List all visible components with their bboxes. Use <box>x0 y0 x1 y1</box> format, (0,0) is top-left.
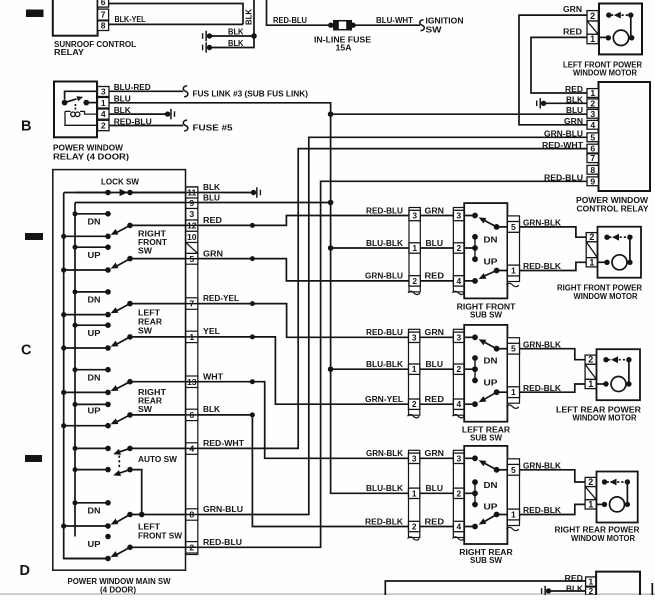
switch arm (down) <box>116 515 131 523</box>
sub switch 1 selector <box>472 234 478 240</box>
left front motor pin 1 <box>587 34 598 43</box>
upper ground (BLK) <box>207 33 212 38</box>
svg-text:7: 7 <box>101 10 106 20</box>
svg-text:8: 8 <box>189 510 194 520</box>
power window relay pin 2 <box>98 120 110 130</box>
motor 2 pin 1 <box>585 379 596 388</box>
svg-text:1: 1 <box>511 387 516 397</box>
svg-text:BLU: BLU <box>114 93 131 103</box>
svg-text:BLU-RED: BLU-RED <box>114 82 151 92</box>
svg-text:RED-BLU: RED-BLU <box>203 537 242 547</box>
sub switch 2 pin 5 <box>507 343 519 354</box>
inline connector 1 pin 1 <box>409 243 420 253</box>
svg-text:RED-BLU: RED-BLU <box>366 327 403 337</box>
svg-text:1: 1 <box>588 379 593 389</box>
sunroof relay pin 8 <box>98 21 109 31</box>
svg-text:11: 11 <box>187 188 196 198</box>
motor 2 keying wedge <box>585 364 596 379</box>
svg-text:BLU: BLU <box>426 359 444 369</box>
svg-text:3: 3 <box>456 453 461 463</box>
auto switch row B <box>75 469 108 471</box>
wire to upper ground <box>210 35 255 37</box>
sub switch 3 selector <box>472 479 478 485</box>
svg-text:GRN-BLK: GRN-BLK <box>523 460 562 470</box>
svg-text:GRN: GRN <box>203 248 223 258</box>
wire RED: left front motor pin 1 to control relay pin 1 <box>531 37 587 93</box>
svg-text:SUB SW: SUB SW <box>470 433 503 443</box>
wire YEL main sw pin 1 to sub connector 2 (GRN-YEL) <box>130 337 409 404</box>
switch arm (up) <box>116 547 131 555</box>
svg-text:GRN-BLK: GRN-BLK <box>523 339 562 349</box>
sub switch 1 right pin strip <box>507 216 519 282</box>
svg-text:RED-YEL: RED-YEL <box>203 293 239 303</box>
main sw keying wedge <box>186 243 198 254</box>
svg-text:BLK: BLK <box>228 27 244 37</box>
main sw pin 9 cell <box>186 198 198 209</box>
svg-text:5: 5 <box>511 465 516 475</box>
motor 3 (circle) <box>596 503 604 505</box>
svg-text:BLU-WHT: BLU-WHT <box>376 15 414 25</box>
svg-text:2: 2 <box>590 11 595 21</box>
svg-text:UP: UP <box>88 539 101 549</box>
switch DN contact <box>75 213 108 215</box>
ignition switch connector squiggle <box>420 20 425 31</box>
fus link #3 connector squiggle <box>183 86 188 97</box>
inline connector 3 pin 2 <box>409 521 420 531</box>
svg-text:1: 1 <box>590 88 595 98</box>
svg-text:WINDOW MOTOR: WINDOW MOTOR <box>573 68 638 78</box>
section marker bar (left, mid) <box>25 233 43 240</box>
switch DN contact <box>75 291 108 293</box>
svg-text:UP: UP <box>484 256 498 266</box>
svg-text:RED-BLU: RED-BLU <box>544 173 583 183</box>
main sw pin 6 cell <box>186 409 198 420</box>
svg-text:RED: RED <box>425 271 445 281</box>
motor 1 (circle) <box>598 261 608 263</box>
auto switch output wire <box>130 470 142 515</box>
wire main sw pin 2 (RED-BLU) <box>130 546 198 548</box>
svg-text:2: 2 <box>101 121 106 131</box>
inline connector 1 strip <box>409 208 420 292</box>
switch arm (up) <box>116 415 131 423</box>
svg-text:BLU: BLU <box>426 483 444 493</box>
control relay pin 9 <box>587 177 599 186</box>
sub switch 3 internal wires <box>464 458 475 526</box>
svg-text:2: 2 <box>589 586 594 595</box>
svg-text:1: 1 <box>511 510 516 520</box>
sub switch 3 pin 3 <box>453 453 464 463</box>
inline connector 1 pin 2 <box>409 276 420 286</box>
inline connector 1 squiggle <box>408 291 420 294</box>
svg-text:CONTROL RELAY: CONTROL RELAY <box>577 203 649 213</box>
wire RED-YEL main sw pin 7 to sub connector 2 <box>130 304 409 338</box>
svg-text:2: 2 <box>589 232 594 242</box>
svg-text:GRN-BLU: GRN-BLU <box>203 504 243 514</box>
svg-text:4: 4 <box>456 399 461 409</box>
svg-text:4: 4 <box>189 444 194 454</box>
switch pivot (down) <box>64 391 108 393</box>
svg-text:BLK: BLK <box>228 38 244 48</box>
control relay pin 7 <box>587 154 599 163</box>
svg-text:10: 10 <box>187 232 197 242</box>
sub switch 1 upper arm <box>472 213 478 219</box>
sub switch 2 pin strip (left) <box>453 329 464 415</box>
wire RED-BLK sub switch 1 to motor <box>520 262 587 270</box>
power window main switch box <box>53 170 186 571</box>
svg-text:12: 12 <box>187 221 197 231</box>
svg-text:15A: 15A <box>336 42 352 52</box>
svg-text:9: 9 <box>189 198 194 208</box>
section marker bar A <box>26 10 44 18</box>
svg-text:RED: RED <box>565 573 584 583</box>
svg-text:UP: UP <box>484 378 498 388</box>
svg-text:1: 1 <box>412 488 417 498</box>
inline connector 2 pin 3 <box>409 332 420 342</box>
wire RED main sw pin 12 to sub connector (RED-BLU) <box>130 216 409 226</box>
left front motor limit switch <box>606 12 611 17</box>
svg-text:WINDOW MOTOR: WINDOW MOTOR <box>573 413 638 423</box>
svg-text:GRN: GRN <box>425 448 445 458</box>
svg-text:BLU-BLK: BLU-BLK <box>366 359 404 369</box>
switch pivot (up) <box>64 347 108 349</box>
sub switch 1 pin 4 <box>453 276 464 286</box>
svg-text:UP: UP <box>88 328 101 338</box>
sub switch 2 upper arm <box>472 334 478 340</box>
svg-text:2: 2 <box>412 399 417 409</box>
svg-text:FRONT SW: FRONT SW <box>138 530 183 540</box>
svg-text:3: 3 <box>456 332 461 342</box>
svg-text:GRN: GRN <box>425 327 445 337</box>
wire stub at right edge <box>651 583 653 595</box>
junction BLU bus / sub connector 1 <box>328 245 334 251</box>
main sw connector strip <box>186 187 198 555</box>
svg-text:1: 1 <box>412 243 417 253</box>
sub switch 2 right pin strip <box>507 338 519 404</box>
svg-text:RED-WHT: RED-WHT <box>542 140 584 150</box>
svg-text:SW: SW <box>138 246 153 256</box>
ground at main sw pin 11 <box>251 190 256 195</box>
wire GRN-BLK sub switch 3 to motor <box>520 470 586 482</box>
inline connector 2 strip <box>409 329 420 415</box>
switch UP contact <box>75 324 108 326</box>
svg-text:2: 2 <box>590 98 595 108</box>
svg-text:RED: RED <box>425 394 445 404</box>
motor 2 limit switch <box>603 357 608 362</box>
svg-text:SW: SW <box>426 24 443 34</box>
svg-text:4: 4 <box>456 522 461 532</box>
power window relay internals: switch <box>65 91 98 100</box>
junction BLU bus / control relay pin 3 <box>328 111 334 117</box>
svg-text:RED: RED <box>425 516 445 526</box>
svg-text:RED: RED <box>565 84 583 94</box>
svg-text:UP: UP <box>88 250 101 260</box>
svg-text:GRN: GRN <box>425 205 445 215</box>
sub switch 1 internal wires <box>464 216 475 281</box>
wire BLK from relay pin 4 to ground <box>109 113 168 115</box>
junction auto output / pin 8 wire <box>139 512 145 518</box>
svg-text:GRN: GRN <box>563 4 582 14</box>
inline connector 3 squiggle <box>408 537 420 540</box>
svg-text:8: 8 <box>590 165 595 175</box>
svg-text:UP: UP <box>88 406 101 416</box>
svg-text:SUB SW: SUB SW <box>470 555 503 565</box>
svg-text:RED-BLU: RED-BLU <box>114 116 152 126</box>
motor 3 armature wire <box>626 482 628 504</box>
motor 3 pin 2 <box>585 477 596 486</box>
wire BLU-WHT from fuse to ignition switch <box>353 24 420 26</box>
svg-text:DN: DN <box>88 372 101 382</box>
harness dot on YEL wire <box>250 334 255 339</box>
svg-text:7: 7 <box>590 153 595 163</box>
motor 1 pin 1 <box>586 258 597 267</box>
harness dot on RED-YEL wire <box>250 301 255 306</box>
svg-text:UP: UP <box>484 502 498 512</box>
svg-text:5: 5 <box>511 344 516 354</box>
svg-text:WHT: WHT <box>203 371 224 381</box>
lower ground (BLK) <box>207 45 212 50</box>
vertical wire BLK from top edge <box>210 0 255 48</box>
control relay pin 2 <box>587 99 599 108</box>
wire GRN main sw pin 5 to sub connector (GRN-BLU) <box>130 259 409 281</box>
svg-text:GRN-YEL: GRN-YEL <box>365 394 403 404</box>
main sw pin 1 cell <box>186 331 198 342</box>
switch pivot (down) <box>64 525 108 527</box>
svg-text:GRN-BLU: GRN-BLU <box>365 271 403 281</box>
wires connector to sub switch <box>420 337 454 404</box>
wire BLU junction to control relay pin 3 <box>331 113 587 115</box>
bottom connector pin 2 <box>586 587 597 595</box>
svg-text:9: 9 <box>590 176 595 186</box>
switch arm (down) <box>116 382 131 390</box>
auto switch arm B <box>119 470 131 474</box>
sub switch 1 pin strip (left) <box>453 208 464 292</box>
svg-text:5: 5 <box>511 222 516 232</box>
svg-text:RED-BLK: RED-BLK <box>523 383 562 393</box>
motor 3 box <box>597 472 638 523</box>
sub switch 3 box <box>464 446 507 544</box>
svg-text:FUS LINK #3 (SUB FUS LINK): FUS LINK #3 (SUB FUS LINK) <box>193 89 309 99</box>
wire BLK-YEL from sunroof relay pin 8 <box>109 23 243 25</box>
svg-text:WINDOW MOTOR: WINDOW MOTOR <box>571 533 636 543</box>
svg-text:2: 2 <box>456 243 461 253</box>
inline connector 1 pin 3 <box>409 210 420 220</box>
svg-text:2: 2 <box>412 522 417 532</box>
svg-text:2: 2 <box>456 488 461 498</box>
svg-text:GRN-BLK: GRN-BLK <box>523 218 562 228</box>
power window relay pin 1 <box>98 98 110 109</box>
sub switch 1 pin 3 <box>453 210 464 220</box>
svg-text:1: 1 <box>589 257 594 267</box>
left front motor (circle) <box>598 36 608 38</box>
motor 3 pin 1 <box>585 500 596 509</box>
svg-text:DN: DN <box>484 356 498 366</box>
svg-text:SW: SW <box>138 404 153 414</box>
svg-text:RED-WHT: RED-WHT <box>203 438 245 448</box>
wire BLK to control relay pin 2 with ground <box>544 102 587 104</box>
power window relay box <box>54 82 97 138</box>
switch pivot (up) <box>64 558 108 560</box>
auto switch dashed link <box>118 456 120 469</box>
switch DN contact <box>75 502 108 504</box>
svg-text:1: 1 <box>590 34 595 44</box>
svg-text:6: 6 <box>189 410 194 420</box>
svg-text:2: 2 <box>588 355 593 365</box>
svg-text:BLU-BLK: BLU-BLK <box>366 483 404 493</box>
svg-text:RELAY: RELAY <box>54 47 84 57</box>
control relay pin 4 <box>587 120 599 129</box>
power window control relay box <box>599 82 651 191</box>
sub switch 3 pin 1 <box>507 509 519 520</box>
svg-text:SUB SW: SUB SW <box>470 309 503 319</box>
wire GRN: left front motor pin 2 to control relay pin 4 <box>519 15 587 125</box>
wire RED-BLU: control relay pin 9 to main switch pin 2 <box>198 181 587 547</box>
sub switch 3 upper arm <box>472 455 478 461</box>
svg-text:RED: RED <box>203 215 222 225</box>
harness corner dot on BLK wire <box>250 412 255 417</box>
wires connector to sub switch <box>420 216 453 281</box>
svg-text:YEL: YEL <box>203 326 220 336</box>
main sw pin 10 cell <box>186 231 198 242</box>
motor 3 keying wedge <box>585 487 596 500</box>
svg-text:RELAY (4 DOOR): RELAY (4 DOOR) <box>53 151 129 161</box>
wire GRN-BLK sub switch 1 to motor <box>520 227 587 237</box>
fuse #5 connector squiggle <box>183 120 188 131</box>
svg-text:2: 2 <box>456 364 461 374</box>
svg-text:6: 6 <box>590 144 595 154</box>
bottom page edge band <box>0 593 655 595</box>
svg-text:DN: DN <box>88 505 101 515</box>
sub switch 3 pin 5 <box>507 464 519 475</box>
left front motor pin 2 <box>587 11 598 21</box>
svg-text:1: 1 <box>189 332 194 342</box>
sub switch 3 pin 2 <box>453 488 464 498</box>
svg-text:3: 3 <box>412 332 417 342</box>
main sw pin 8 cell <box>186 509 198 520</box>
sub switch 2 pin 2 <box>453 364 464 374</box>
switch arm (down) <box>116 225 131 233</box>
motor 1 pin 2 <box>586 233 597 242</box>
svg-text:4: 4 <box>456 276 461 286</box>
wire BLU-BLK: blu bus to sub connector 1 <box>331 247 409 249</box>
wire RED-BLK sub switch 2 to motor <box>520 384 586 392</box>
wire RED-BLK sub switch 3 to motor <box>520 504 586 514</box>
svg-text:6: 6 <box>101 0 106 7</box>
svg-text:FUSE #5: FUSE #5 <box>193 122 233 132</box>
svg-text:1: 1 <box>511 266 516 276</box>
svg-text:BLK: BLK <box>203 182 221 192</box>
main sw pin 2 cell <box>186 542 198 553</box>
svg-text:DN: DN <box>88 294 101 304</box>
wire GRN-BLU: control relay pin 5 to main switch pin 8 <box>198 137 587 514</box>
sub switch 2 pin 1 <box>507 387 519 398</box>
svg-text:RED-BLK: RED-BLK <box>365 516 404 526</box>
junction of BLK wires <box>251 33 257 39</box>
bottom connector pin 1 <box>586 577 597 586</box>
wire main sw pin 8 (GRN-BLU) <box>130 514 198 516</box>
svg-text:D: D <box>20 563 30 579</box>
control relay pin 8 <box>587 165 599 174</box>
svg-text:8: 8 <box>101 21 106 31</box>
section marker bar (left, lower) <box>25 455 42 462</box>
sub switch 1 pin 5 <box>507 222 519 233</box>
svg-text:BLU-BLK: BLU-BLK <box>366 238 404 248</box>
svg-text:BLK: BLK <box>566 583 584 593</box>
inline connector 3 pin 3 <box>409 453 420 463</box>
svg-text:3: 3 <box>412 453 417 463</box>
svg-text:3: 3 <box>590 109 595 119</box>
motor 1 armature wire <box>629 237 631 262</box>
svg-text:3: 3 <box>189 209 194 219</box>
main sw pin 13 cell <box>186 376 198 388</box>
motor 1 limit switch <box>604 235 609 240</box>
power window relay pin 3 <box>98 87 110 97</box>
motor 2 armature wire <box>628 360 630 384</box>
svg-text:DN: DN <box>88 216 101 226</box>
motor 2 (circle) <box>596 383 606 385</box>
sunroof control relay box <box>53 0 98 36</box>
svg-text:7: 7 <box>189 299 194 309</box>
svg-text:RED-BLK: RED-BLK <box>523 505 562 515</box>
motor 2 box <box>597 349 641 400</box>
switch pivot (up) <box>64 269 108 271</box>
svg-text:3: 3 <box>101 87 106 97</box>
wire BLK to bottom connector pin 2 with ground <box>549 590 586 592</box>
svg-text:GRN-BLU: GRN-BLU <box>544 129 583 139</box>
main sw left bus (lock sw feed) <box>64 193 108 559</box>
bottom right component box (cut) <box>596 572 640 595</box>
inline connector 2 pin 2 <box>409 399 420 409</box>
wire BLU-BLK: blu bus to sub connector 2 <box>331 368 409 370</box>
control relay pin 1 <box>587 89 599 98</box>
svg-text:RED: RED <box>563 26 582 36</box>
switch DN contact <box>75 369 108 371</box>
wire RED from bottom edge to bottom connector pin 1 <box>385 581 585 595</box>
svg-text:4: 4 <box>590 120 595 130</box>
harness dot on GRN wire <box>250 256 255 261</box>
sub switch 1 pin 2 <box>453 243 464 253</box>
svg-text:BLK-YEL: BLK-YEL <box>115 14 146 24</box>
sub switch 2 pin 3 <box>453 332 464 342</box>
svg-text:C: C <box>21 342 32 358</box>
junction BLU bus / sub connector 2 <box>328 366 334 372</box>
svg-text:2: 2 <box>189 542 194 552</box>
switch UP contact <box>75 403 108 405</box>
svg-text:3: 3 <box>456 211 461 221</box>
sunroof relay pin 7 <box>98 9 109 20</box>
wire BLK main sw pin 11 to ground <box>75 192 254 194</box>
auto switch row A <box>75 447 108 449</box>
motor 1 box <box>598 227 642 278</box>
wire from sunroof relay pin 6 <box>109 4 243 25</box>
switch arm (up) <box>116 259 131 267</box>
left front power window motor box <box>599 4 642 55</box>
motor 2 pin 2 <box>585 355 596 364</box>
control relay pin 3 <box>587 109 599 118</box>
svg-text:BLK: BLK <box>203 404 221 414</box>
main sw pin 7 cell <box>186 298 198 310</box>
switch arm (up) <box>116 337 131 345</box>
sub switch 3 lower arm <box>472 524 478 530</box>
svg-text:5: 5 <box>590 132 595 142</box>
svg-text:B: B <box>21 119 31 135</box>
main sw second bus (BLU feed) <box>74 203 76 537</box>
main sw pin 5 cell <box>186 253 198 264</box>
svg-text:LOCK SW: LOCK SW <box>101 177 140 187</box>
svg-text:DN: DN <box>484 480 498 490</box>
switch pivot (down) <box>64 314 108 316</box>
left front sw isolated UP contact <box>105 534 111 540</box>
switch arm (down) <box>116 304 131 312</box>
